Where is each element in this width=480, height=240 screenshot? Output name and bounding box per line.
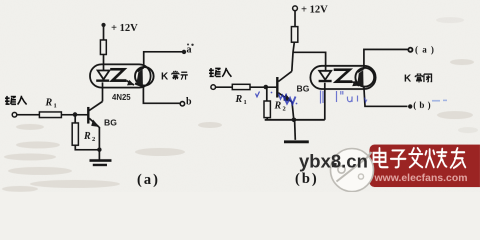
input terminal circle (b) — [211, 85, 216, 90]
子 — [391, 150, 406, 167]
wire input to R1 (b) — [216, 86, 233, 88]
opto U1 inner junction wedge — [137, 69, 143, 86]
wire R2 bottom to rail — [266, 118, 268, 120]
wire emitter down to rail (b) — [292, 102, 294, 120]
wire LED cathode down to rail — [324, 83, 326, 120]
node emitter-rail junction dot (b) — [292, 118, 297, 123]
输入 label (b) — [209, 68, 231, 77]
svg-text:R: R — [234, 94, 242, 105]
svg-text:R: R — [83, 131, 91, 142]
transistor Q1 base bar — [87, 107, 89, 124]
常 char (b) — [415, 73, 422, 82]
svg-text:2: 2 — [282, 106, 285, 113]
svg-text:(b): (b) — [295, 171, 319, 187]
opto U2 transistor circle — [355, 68, 374, 87]
wire resistor to opto LED anode — [103, 54, 105, 66]
paper background — [0, 0, 480, 192]
ground (b) — [294, 120, 297, 140]
opto U2 package ellipse — [310, 66, 375, 89]
bottom rail (b) — [265, 119, 325, 121]
发 — [409, 148, 422, 167]
opto U1 phototransistor Z bar — [110, 69, 126, 80]
opto U1 collector inner stroke — [138, 67, 144, 71]
svg-text:2: 2 — [92, 136, 95, 143]
opto U1 LED cathode bar — [96, 79, 109, 81]
svg-text:K: K — [161, 71, 169, 82]
transistor Q2 collector stroke — [278, 71, 291, 81]
opto U2 inner junction wedge — [357, 70, 363, 87]
blue tick near R1 (b) — [255, 92, 259, 97]
svg-text:www.elecfans.com: www.elecfans.com — [373, 172, 467, 184]
input terminal circle — [12, 112, 17, 117]
transistor Q1 collector stroke (joins LED cathode) — [89, 101, 103, 110]
svg-text:ybx8.cn: ybx8.cn — [299, 151, 368, 172]
opto U1 LED anode stem — [103, 66, 105, 71]
node base junction dot (b) — [264, 85, 269, 90]
友 — [451, 148, 466, 168]
wire junction down to R2 — [74, 115, 76, 123]
wire LED cathode down — [101, 82, 103, 101]
elecfans red logo box — [369, 145, 480, 188]
opto U2 phototransistor Z bar — [334, 70, 353, 82]
svg-text:+ 12V: + 12V — [301, 5, 328, 16]
+12V terminal circle (b) — [293, 6, 298, 11]
opto U2 LED anode stem — [325, 66, 327, 71]
opto U2 emitter inner stroke — [360, 84, 365, 87]
blue strokes under opto (b) — [320, 91, 367, 104]
svg-text:(a): (a) — [415, 45, 438, 55]
transistor Q1 emitter stroke with arrow — [89, 118, 99, 127]
烧 — [425, 149, 446, 168]
wire phototransistor emitter down and right to b — [143, 86, 180, 103]
ybx8 white circle stamp — [330, 149, 373, 192]
wire terminal to resistor Rb — [294, 11, 296, 27]
opto U2 collector inner stroke — [358, 68, 364, 72]
svg-text:(a): (a) — [137, 172, 160, 188]
transistor Q2 base bar — [276, 77, 278, 98]
svg-text:a: a — [187, 44, 192, 55]
电 — [373, 148, 387, 167]
svg-text:b: b — [186, 96, 192, 107]
resistor Ra (vertical body) — [100, 40, 106, 55]
opto U1 LED triangle — [98, 70, 110, 79]
svg-text:1: 1 — [53, 102, 56, 109]
opto U2 LED cathode bar — [319, 80, 332, 82]
开 char (a) — [181, 72, 188, 79]
svg-text:1: 1 — [243, 99, 246, 106]
node emitter-ground junction dot — [97, 147, 101, 151]
terminal (b) dot — [408, 104, 412, 108]
ground (a) — [98, 150, 100, 160]
light blue dashes right — [432, 99, 447, 101]
opto U2 LED triangle — [319, 71, 331, 80]
svg-text:R: R — [44, 97, 52, 108]
wire phototransistor emitter down and right to (b) terminal — [364, 87, 408, 106]
svg-text:4N25: 4N25 — [112, 93, 131, 102]
blue W scribbles near R2 (b) — [271, 92, 298, 105]
电子发烧友 white characters — [373, 148, 465, 168]
+12V terminal dot — [101, 23, 105, 27]
常 char (a) — [172, 71, 179, 80]
wire +12V to resistor Ra — [103, 27, 105, 40]
wire phototransistor collector up and right to a — [144, 52, 183, 68]
terminal a dot — [182, 50, 186, 54]
wire R1 to base — [61, 114, 88, 116]
ybx8 dot bolden — [332, 163, 337, 167]
wire R2 bottom to ground rail — [75, 145, 99, 150]
输入 label (a) — [5, 96, 27, 105]
wire R1 to base (b) — [250, 86, 276, 88]
resistor R1 (a) body — [39, 112, 61, 118]
svg-text:+ 12V: + 12V — [111, 23, 138, 34]
wire emitter down — [98, 127, 100, 150]
node base junction dot — [73, 112, 78, 117]
opto U2 emitter arrow — [352, 82, 359, 86]
闭 char (b) — [424, 74, 432, 82]
terminal b circle — [180, 102, 184, 106]
wire resistor down to T node — [292, 42, 295, 71]
wire input to R1 — [17, 114, 40, 116]
resistor R1 (b) body — [232, 84, 250, 89]
resistor R2 (b) body — [264, 101, 270, 118]
opto U1 package ellipse — [90, 64, 151, 87]
wire T branch right to LED — [293, 52, 325, 66]
svg-text:(b): (b) — [413, 100, 434, 110]
wire phototransistor collector up and right to (a) terminal — [364, 49, 408, 68]
opto U1 transistor circle — [135, 67, 154, 86]
terminal (a) circle — [408, 48, 412, 52]
wire junction down to R2 (b) — [266, 87, 268, 101]
svg-text:BG: BG — [104, 117, 117, 127]
transistor Q2 emitter stroke with arrow — [278, 93, 292, 102]
svg-text:BG: BG — [297, 83, 310, 93]
opto U1 emitter inner stroke — [135, 83, 143, 86]
resistor R2 (a) body — [72, 123, 78, 145]
opto U1 phototransistor emitter arrow — [126, 81, 134, 85]
resistor Rb body — [291, 27, 297, 43]
faint scan smudges — [2, 17, 478, 192]
svg-text:K: K — [404, 74, 412, 85]
svg-text:R: R — [273, 101, 281, 112]
